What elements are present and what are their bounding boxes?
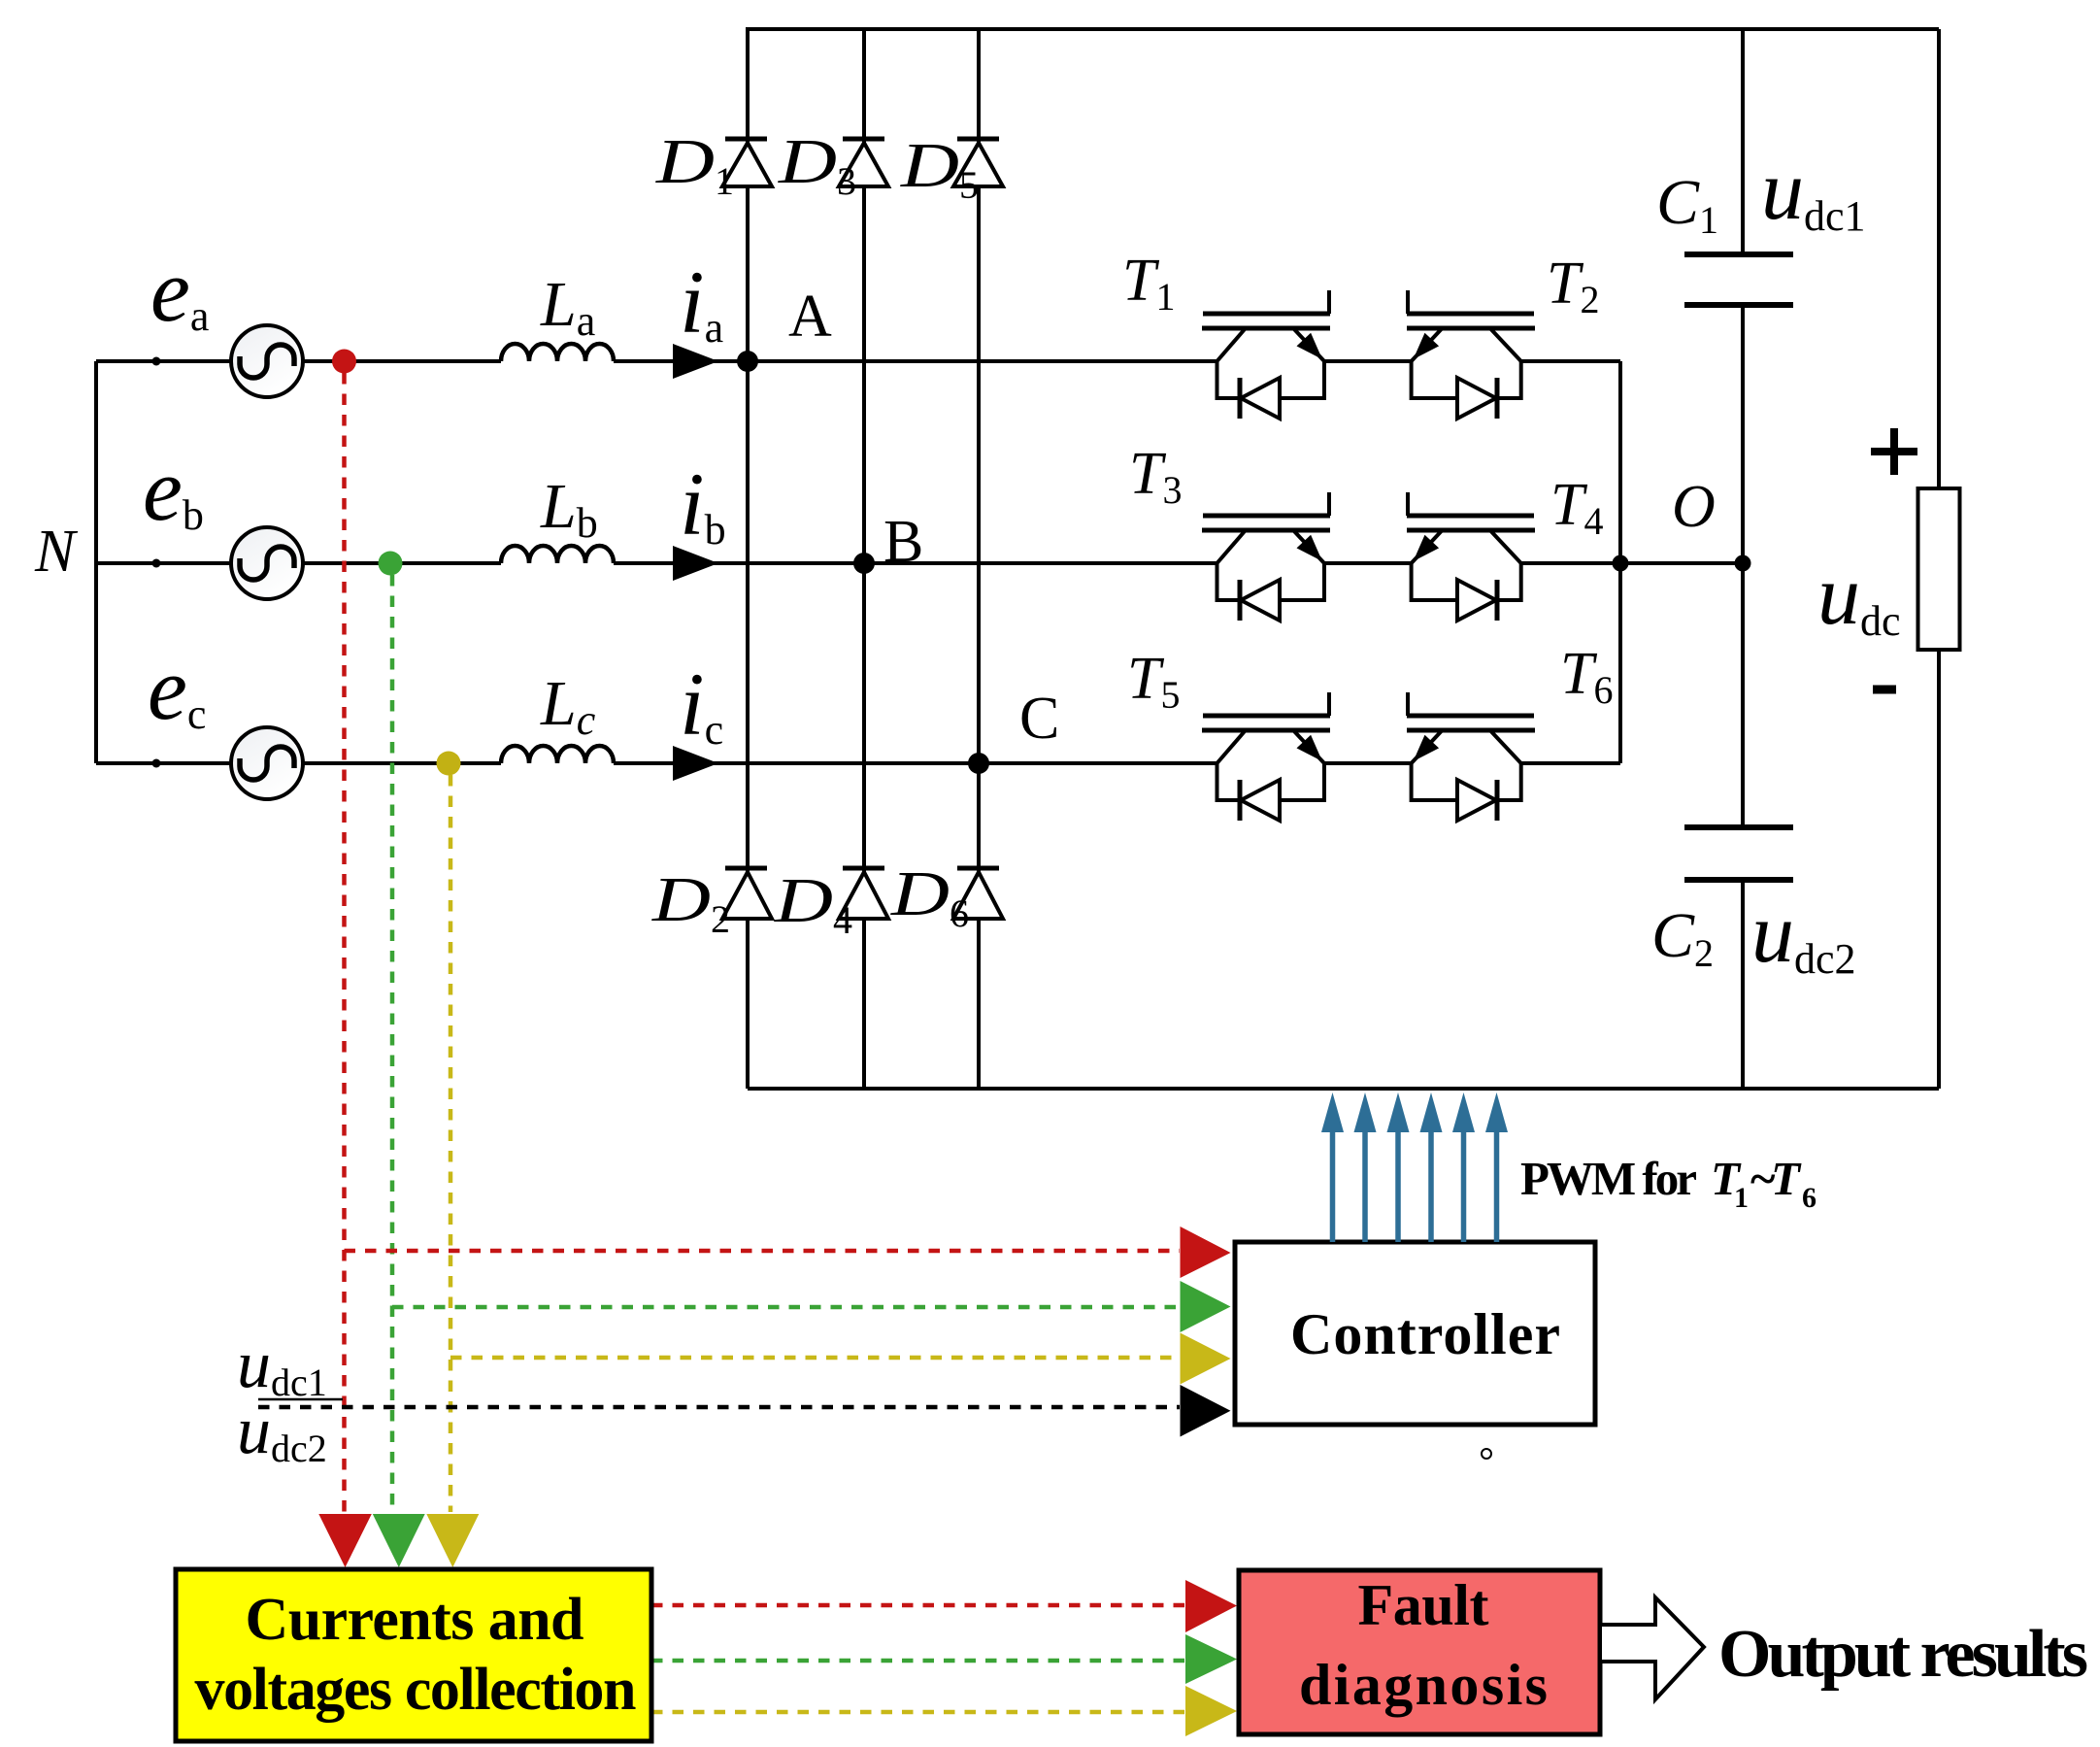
node O dot <box>1735 555 1751 572</box>
svg-text:Fault: Fault <box>1358 1573 1489 1637</box>
capacitor C1 <box>1684 254 1793 305</box>
controller box <box>1235 1242 1595 1425</box>
label fraction bar under udc1 <box>258 1398 343 1401</box>
wire dashed green ib sense vertical <box>390 575 395 1512</box>
svg-text:Output results: Output results <box>1718 1617 2088 1692</box>
PWM arrow 2 (blue) <box>1354 1092 1377 1242</box>
signal tap dot phase c (yellow) <box>437 752 461 776</box>
node A dot <box>737 351 758 372</box>
diode D6 <box>953 868 1003 919</box>
artifact small circle under controller <box>1482 1449 1491 1459</box>
inductor Lc <box>501 746 614 763</box>
wire diode leg 3 (phase C) <box>977 29 981 1089</box>
wire dashed yellow ic sense vertical <box>449 775 453 1512</box>
wire diode leg 2 (phase B) <box>862 29 866 1089</box>
wire phase b row <box>96 561 1217 565</box>
PWM arrow 3 (blue) <box>1387 1092 1410 1242</box>
diode D2 <box>722 868 772 919</box>
current arrow ia <box>673 344 718 379</box>
node dot bridge bus at O <box>1613 555 1629 572</box>
svg-text:6: 6 <box>1802 1182 1817 1214</box>
wire T5-T6 middle and right links row c <box>1324 761 1620 765</box>
minus sign <box>1873 686 1896 694</box>
svg-text:O: O <box>1672 474 1716 540</box>
diode D1 <box>722 139 772 186</box>
AC source eb <box>231 527 303 599</box>
inductor La <box>501 344 614 361</box>
PWM arrow 6 (blue) <box>1485 1092 1508 1242</box>
wire dashed red to controller <box>345 1249 1181 1254</box>
AC source ea <box>231 325 303 397</box>
svg-text:diagnosis: diagnosis <box>1299 1653 1548 1717</box>
wire T3-T4 middle and right links row b <box>1324 561 1620 565</box>
arrowhead green down into collection box <box>373 1514 425 1567</box>
transistor T3 (IGBT with antiparallel diode) <box>1202 492 1330 621</box>
plus sign <box>1871 428 1917 475</box>
output results block arrow <box>1600 1597 1704 1699</box>
inductor Lb <box>501 546 614 563</box>
wire dashed red ia sense vertical <box>342 373 347 1512</box>
junction dot phase b left <box>152 559 161 568</box>
current arrow ib <box>673 546 718 581</box>
wire capacitor branch <box>1741 29 1745 1089</box>
wire neutral bus N <box>94 361 98 763</box>
wire phase c row <box>96 761 1217 765</box>
node C dot <box>968 753 989 774</box>
arrowhead black into controller <box>1181 1385 1231 1437</box>
svg-text:Currents and: Currents and <box>246 1587 584 1653</box>
signal tap dot phase a (red) <box>332 350 356 374</box>
transistor T6 (IGBT with antiparallel diode) <box>1407 692 1535 821</box>
resistor load <box>1918 488 1960 650</box>
wire T1-T2 middle and right links row a <box>1324 359 1620 363</box>
transistor T4 (IGBT with antiparallel diode) <box>1407 492 1535 621</box>
wire load branch <box>1937 29 1941 1089</box>
PWM arrow 5 (blue) <box>1452 1092 1475 1242</box>
arrowhead green into controller <box>1181 1281 1231 1332</box>
svg-text:B: B <box>883 509 923 575</box>
capacitor C2 <box>1684 827 1793 880</box>
svg-text:T: T <box>1771 1152 1802 1205</box>
svg-text:Controller: Controller <box>1290 1302 1560 1366</box>
wire dashed yellow collection to fault <box>651 1710 1185 1715</box>
junction dot phase a left <box>152 357 161 366</box>
diode D5 <box>953 139 1003 186</box>
wire phase a row <box>96 359 1217 363</box>
signal tap dot phase b (green) <box>379 552 403 576</box>
AC source ec <box>231 727 303 799</box>
diode D3 <box>839 139 888 186</box>
transistor T2 (IGBT with antiparallel diode) <box>1407 290 1535 419</box>
wire top DC bus <box>746 27 1939 31</box>
svg-text:C: C <box>1019 686 1059 752</box>
PWM arrow 1 (blue) <box>1321 1092 1344 1242</box>
PWM arrow 4 (blue) <box>1420 1092 1443 1242</box>
wire right bridge bus <box>1618 361 1622 763</box>
wire diode leg 1 (phase A) <box>746 29 750 1089</box>
wire dashed black udc to controller <box>258 1405 1180 1410</box>
current arrow ic <box>673 746 718 781</box>
svg-text:A: A <box>788 284 832 350</box>
svg-text:voltages collection: voltages collection <box>195 1657 637 1723</box>
fault diagnosis box (red) <box>1239 1570 1600 1734</box>
svg-text:N: N <box>34 519 79 585</box>
arrowhead red into fault box <box>1185 1580 1237 1632</box>
wire dashed red collection to fault <box>651 1603 1185 1608</box>
wire dashed green to controller <box>392 1305 1180 1310</box>
transistor T5 (IGBT with antiparallel diode) <box>1202 692 1330 821</box>
diode D4 <box>839 868 888 919</box>
wire dashed yellow to controller <box>450 1356 1180 1361</box>
svg-text:1: 1 <box>1734 1182 1749 1214</box>
collection box (yellow) <box>176 1569 651 1741</box>
wire bottom DC bus <box>748 1087 1939 1091</box>
wire node O link <box>1620 561 1743 565</box>
arrowhead green into fault box <box>1185 1634 1237 1684</box>
junction dot phase c left <box>152 759 161 768</box>
arrowhead red into controller <box>1181 1226 1231 1278</box>
arrowhead yellow down into collection box <box>426 1514 479 1567</box>
arrowhead yellow into controller <box>1181 1333 1231 1385</box>
node B dot <box>853 553 875 574</box>
arrowhead red down into collection box <box>318 1514 372 1567</box>
svg-text:PWM for: PWM for <box>1520 1152 1697 1205</box>
wire dashed green collection to fault <box>651 1659 1185 1663</box>
transistor T1 (IGBT with antiparallel diode) <box>1202 290 1330 419</box>
arrowhead yellow into fault box <box>1185 1686 1237 1736</box>
